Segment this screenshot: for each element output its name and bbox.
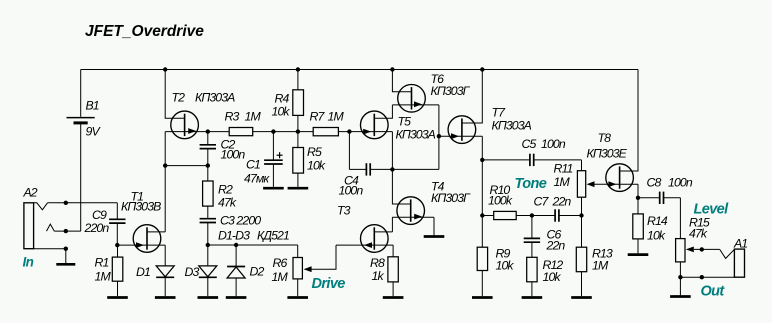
svg-text:R14: R14 [647,214,668,228]
transistor T6 KP303G [398,85,426,113]
ground R13 [571,296,592,299]
svg-text:1M: 1M [272,270,289,284]
svg-text:Т3: Т3 [337,204,351,218]
wire T1 source down to D1 [164,245,166,266]
transistor T3 [361,225,389,253]
svg-text:10k: 10k [543,270,562,284]
wire battery plus to top rail [80,70,82,117]
wire T1 drain up to T2 gate node [147,231,165,233]
svg-text:100n: 100n [541,137,566,151]
wire A2 tip to C9 [48,202,118,204]
svg-text:10k: 10k [272,105,291,119]
wire R15 wiper to A1 tip [694,248,720,250]
svg-text:100n: 100n [668,176,693,190]
wire T8 gate-source continues [620,183,638,185]
wire diode clipping row [208,244,298,246]
resistor R3 1M [208,131,229,133]
svg-text:100k: 100k [488,193,513,207]
capacitor C6 22n [531,216,533,239]
node C6 tap [530,213,534,217]
resistor R14 10k [633,214,644,239]
ground D1 [155,296,176,299]
wire A2 ring to battery [54,230,80,232]
node C3 / D3 [206,243,210,247]
node T2 source / R3 / C2 [206,129,210,133]
ground R5 [288,187,309,190]
svg-text:КП303А: КП303А [195,91,235,105]
plus sign C1 [277,154,283,156]
svg-text:Tone: Tone [515,176,547,192]
node T1 gate / C9 / R1 [115,243,119,247]
svg-text:R11: R11 [554,162,573,176]
jack A2 input [24,203,34,249]
wire T3 gate to R6 wiper [311,245,336,269]
capacitor C2 100n [207,132,209,145]
jack A1 tip contact lever [720,249,735,258]
wire R11 wiper to T8 gate [594,183,619,185]
transistor T8 KP303E [606,164,634,192]
wire T8 source down [637,184,639,214]
svg-text:47k: 47k [218,196,237,210]
transistor T4 KP303G [397,197,425,225]
resistor R1 1M [117,245,119,257]
potentiometer R6 1M Drive [297,245,299,258]
svg-text:R5: R5 [307,145,322,159]
svg-text:1M: 1M [554,175,571,189]
ground A2 sleeve [56,263,75,266]
svg-text:Т2: Т2 [172,91,186,105]
ground R6 [287,296,308,299]
wire T2 drain to top rail [165,70,184,119]
svg-text:C1: C1 [246,158,260,172]
svg-text:R1: R1 [95,256,109,270]
wire T3 drain to T4 gate [374,231,392,233]
wire C8 to R15 top [679,198,681,239]
wire T4 drain up to node [392,169,410,204]
resistor R10 100k [482,215,493,217]
svg-text:JFET_Overdrive: JFET_Overdrive [85,23,204,40]
svg-text:B1: B1 [86,99,99,113]
svg-text:C9: C9 [92,208,107,222]
svg-text:47мк: 47мк [244,172,270,186]
wire T3 source down to R8 [392,245,394,257]
svg-text:1M: 1M [592,259,609,273]
node A1 tip pin [700,247,704,251]
wire T7 source column down [481,136,483,247]
svg-text:1M: 1M [95,269,112,283]
svg-text:100n: 100n [221,148,246,162]
wire T4 source to ground [433,217,435,235]
node T2 gate / C2R2 branch [163,163,167,167]
wire node to C2/R2 [165,165,208,167]
svg-text:10k: 10k [496,259,515,273]
node R15 bottom junction [678,275,682,279]
potentiometer R15 47k Level [676,239,685,262]
ground D3 [198,296,219,299]
wiper arrow R15 [686,247,694,253]
jack A2 tip contact lever [34,203,48,210]
svg-text:10k: 10k [647,229,666,243]
wire T5 drain up to T6 gate [374,105,392,118]
wire R15 bottom lead [679,262,681,277]
svg-text:1M: 1M [245,110,262,124]
svg-text:1M: 1M [328,110,345,124]
wiper arrow R11 [587,181,595,187]
svg-text:КП303В: КП303В [121,200,161,214]
wire T7 drain to top rail [462,70,482,124]
svg-text:C7: C7 [534,195,550,209]
resistor R13 1M [581,216,583,248]
node C5 tap [480,158,484,162]
wire T4 gate-source line [392,216,434,218]
node A2 tip pin [64,201,68,205]
resistor R7 1M [313,128,338,136]
diode D2 reversed [235,245,237,267]
wire C5 to R11 top [581,160,583,171]
wire R7 to T5 gate [338,131,374,133]
wire ground stem [679,277,681,295]
jack A1 output [734,249,744,277]
jack A2 ring contact lever [47,224,55,231]
wire A2 sleeve to ground [34,248,66,250]
svg-text:47k: 47k [689,227,708,241]
ground R14 [628,253,649,256]
wire T4 gate down to T3 drain [391,217,393,232]
node top rail / T6 drain [390,67,394,71]
wire R3 to R7 row [253,131,314,133]
capacitor C5 100n [482,159,530,161]
wire T6 source down leg [438,105,440,169]
svg-text:КП303Е: КП303Е [587,147,628,161]
node top rail / T7 drain [480,67,484,71]
node T7 gate tap [437,134,441,138]
wire node to T6 source leg [392,168,439,170]
node R4 R5 junction [296,129,300,133]
node T5 gate / C4 [347,129,351,133]
svg-text:D1-D3: D1-D3 [218,229,250,243]
capacitor C9 220n [109,218,125,220]
node C4 / T5 source / T4 drain [390,167,394,171]
transistor T2 KP303A [171,111,199,139]
wire T5 source down to C4 node [391,132,393,170]
svg-text:R6: R6 [273,256,288,270]
ground R9 [472,296,493,299]
svg-text:220n: 220n [84,221,110,235]
svg-text:КП303А: КП303А [492,119,532,133]
ground R12 [522,296,543,299]
svg-text:Т8: Т8 [598,131,612,145]
wire T6 drain to top rail [392,70,411,92]
node D2 [234,243,238,247]
svg-text:A1: A1 [733,237,747,251]
svg-text:C5: C5 [522,137,537,151]
svg-text:R2: R2 [218,183,233,197]
svg-text:C3 2200: C3 2200 [220,214,261,228]
svg-text:A2: A2 [23,186,38,200]
ground R15 A1 [670,295,691,298]
wire A1 sleeve to R15 bottom and ground [680,276,734,278]
node top rail / T2 drain [163,67,167,71]
wire T5 gate-source line continues [374,131,392,133]
svg-text:9V: 9V [86,125,102,139]
wire T7 gate from T6 source leg [439,135,462,137]
ground T4 source [424,235,445,238]
svg-text:C8: C8 [647,176,662,190]
resistor R5 10k [297,132,299,148]
wire T7 gate-source line continues [462,135,482,137]
ground R8 [383,296,404,299]
diode D3 [207,245,209,266]
potentiometer R11 1M Tone [577,171,585,198]
node C2 R2 junction [206,163,210,167]
diode D1 [164,265,166,267]
capacitor C4 100n [348,132,350,170]
wire T2 gate-source line [165,131,208,133]
svg-text:10k: 10k [307,159,326,173]
capacitor C8 100n [638,197,660,199]
resistor R2 47k [207,166,209,181]
node C1 top [271,129,275,133]
svg-text:Drive: Drive [312,276,346,292]
node T8 source / C8 / R14 [636,196,640,200]
capacitor C3 2200 [200,218,216,220]
wire T1 gate-source line [117,244,165,246]
transistor T7 KP303A [448,116,476,144]
svg-text:D1: D1 [136,265,150,279]
capacitor C7 22n [532,215,555,217]
wire T6 gate-source line [392,104,439,106]
ground C1 [263,187,284,190]
wire top power rail [81,69,638,71]
svg-text:D3: D3 [185,265,200,279]
node A2 sleeve pin [64,247,68,251]
svg-text:КД521: КД521 [257,229,289,243]
svg-text:R3: R3 [225,110,240,124]
node A2 ring pin [64,229,68,233]
svg-text:D2: D2 [250,265,265,279]
svg-text:R8: R8 [370,256,385,270]
svg-text:КП303Г: КП303Г [431,84,471,98]
wire T8 drain to top rail [620,70,638,172]
resistor R4 10k [297,70,299,90]
wire T3 gate-source line [336,244,393,246]
svg-text:1k: 1k [372,269,385,283]
capacitor C1 47uF electrolytic [272,132,274,161]
svg-text:КП303А: КП303А [396,128,436,142]
node top rail / R4 [296,67,300,71]
resistor R12 10k [527,257,537,282]
transistor T1 KP303V [133,225,161,253]
svg-text:100n: 100n [339,184,364,198]
node A1 sleeve pin [700,275,704,279]
svg-text:In: In [23,255,34,270]
battery B1 [67,117,95,119]
svg-text:22n: 22n [546,239,566,253]
svg-text:Out: Out [701,284,726,300]
svg-text:Т7: Т7 [492,106,507,120]
svg-text:R7: R7 [310,110,326,124]
node R10 tap [480,213,484,217]
svg-text:КП303Г: КП303Г [431,191,471,205]
node R11 bottom / R13 [579,213,583,217]
ground R1 [107,296,128,299]
ground D2 [226,296,247,299]
svg-text:R4: R4 [275,92,290,106]
resistor R8 1k [388,257,398,282]
transistor T5 KP303A [361,111,389,139]
svg-text:Level: Level [694,202,730,218]
svg-text:22n: 22n [552,195,572,209]
wire battery minus down to jack A2 switch contact [80,124,82,231]
svg-text:Т5: Т5 [398,115,412,129]
resistor R9 10k [477,247,487,270]
